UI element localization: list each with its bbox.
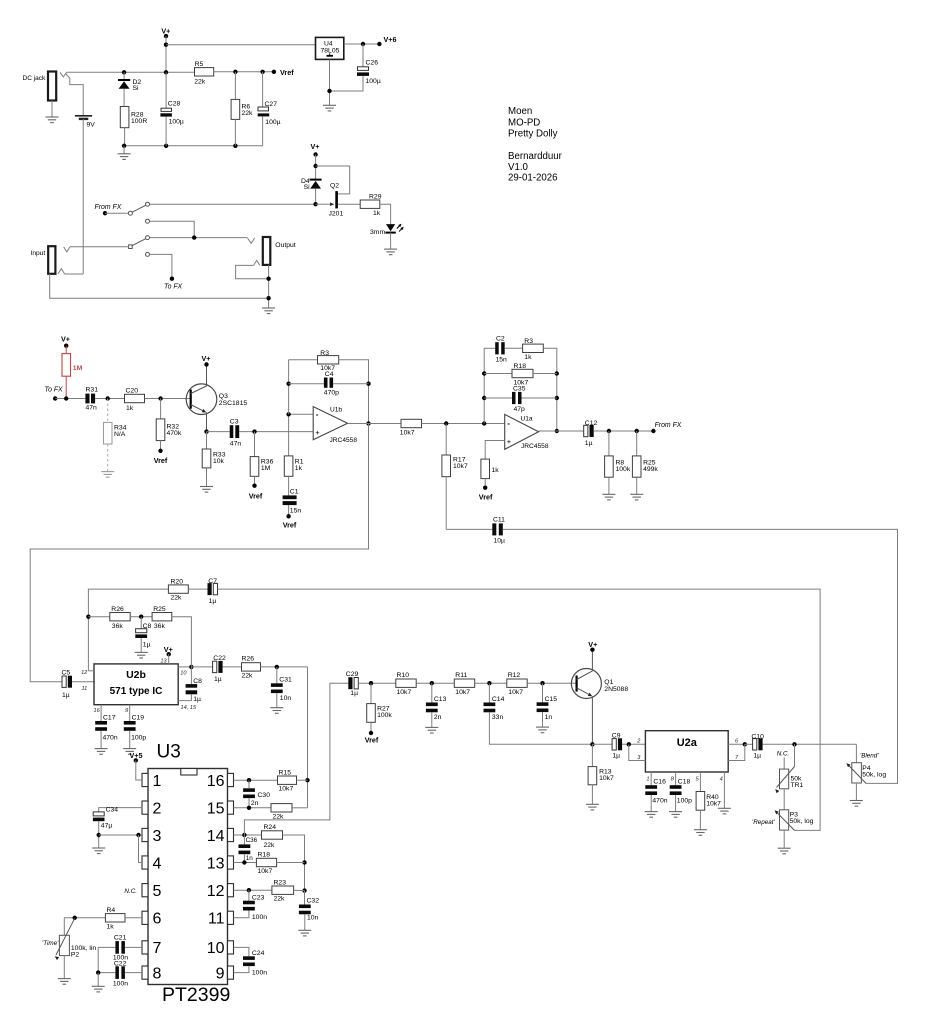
ground (C21 C22): [92, 986, 105, 992]
ground (U2a pin4): [718, 808, 731, 814]
capacitor C7 1u: [213, 583, 217, 594]
node Vref (R32): [158, 449, 162, 453]
svg-text:100n: 100n: [252, 970, 267, 977]
svg-text:470n: 470n: [103, 735, 118, 742]
ground (R40): [694, 830, 707, 836]
ground (C18): [669, 812, 682, 818]
capacitor C3 47n: [207, 431, 230, 433]
svg-text:C21: C21: [114, 935, 127, 942]
regulator U4 78L05: [316, 37, 344, 59]
capacitor C19 100p: [129, 705, 131, 721]
transistor Q3 2SC1815: [186, 384, 217, 415]
pin 4 (U2a): [723, 772, 725, 808]
svg-text:C18: C18: [678, 779, 691, 786]
capacitor C26 100u: [362, 44, 364, 67]
svg-text:'Blend': 'Blend': [860, 752, 879, 759]
wire pin15: [234, 807, 272, 809]
ground (R13): [586, 804, 599, 810]
potentiometer P3 50k log Repeat: [780, 810, 789, 830]
svg-text:JRC4558: JRC4558: [521, 443, 549, 450]
svg-text:R10: R10: [397, 672, 410, 679]
svg-text:2n: 2n: [251, 800, 259, 807]
svg-text:R18: R18: [514, 363, 527, 370]
wire U1a output: [539, 430, 584, 432]
node Vref (R36): [252, 484, 256, 488]
svg-text:C1: C1: [290, 489, 299, 496]
wire delay to C29: [244, 683, 348, 835]
resistor R40 10k7: [699, 772, 701, 792]
svg-text:10n: 10n: [307, 914, 319, 921]
svg-text:36k: 36k: [112, 623, 124, 630]
resistor R13 10k7: [590, 742, 594, 746]
svg-text:1n: 1n: [545, 714, 553, 721]
svg-text:C34: C34: [106, 806, 119, 813]
svg-text:10k: 10k: [213, 458, 225, 465]
svg-text:'Repeat': 'Repeat': [752, 819, 776, 826]
resistor R25 36k: [152, 613, 172, 621]
svg-text:15: 15: [207, 800, 225, 817]
ground (P2): [58, 979, 71, 985]
wire U1a feedback column: [483, 348, 485, 423]
wire V+ to U4: [166, 44, 316, 46]
svg-text:R12: R12: [508, 672, 521, 679]
svg-text:470p: 470p: [324, 390, 339, 397]
ground (C32): [298, 930, 311, 936]
svg-text:50k, log: 50k, log: [790, 818, 814, 825]
svg-text:C13: C13: [434, 696, 447, 703]
svg-text:1µ: 1µ: [209, 598, 217, 605]
svg-text:11: 11: [81, 686, 87, 692]
svg-text:C22: C22: [114, 960, 127, 967]
svg-text:C24: C24: [252, 950, 265, 957]
svg-text:100µ: 100µ: [169, 119, 184, 126]
svg-text:22k: 22k: [194, 78, 206, 85]
ground (C19): [123, 749, 136, 755]
node Vref (power): [272, 70, 276, 74]
svg-text:33n: 33n: [492, 714, 504, 721]
wire pins 3+4: [99, 834, 142, 836]
svg-text:78L05: 78L05: [321, 48, 340, 55]
resistor 1M pulldown (red): [65, 346, 67, 354]
svg-text:R26: R26: [242, 656, 255, 663]
wire top rail: [67, 71, 195, 73]
svg-text:10: 10: [207, 940, 225, 957]
svg-text:R24: R24: [264, 824, 277, 831]
svg-text:C12: C12: [585, 420, 598, 427]
capacitor C8 1u (pin10): [190, 667, 192, 684]
resistor R18 10k7 (U1a): [484, 373, 512, 375]
svg-text:Vref: Vref: [249, 492, 263, 501]
svg-text:'Time': 'Time': [42, 940, 59, 947]
resistor R3 1k (U1a): [523, 344, 544, 352]
svg-text:Input: Input: [31, 250, 46, 257]
svg-text:10k7: 10k7: [453, 463, 468, 470]
resistor R6 22k: [234, 72, 236, 100]
ground (C34): [92, 848, 105, 854]
svg-text:22k: 22k: [171, 595, 183, 602]
ground (P3): [778, 848, 791, 854]
svg-text:10k7: 10k7: [599, 775, 614, 782]
DC jack J1: [48, 72, 56, 101]
svg-text:100p: 100p: [677, 797, 692, 804]
svg-text:C28: C28: [168, 101, 181, 108]
ground (R25): [630, 494, 643, 500]
svg-text:R31: R31: [86, 387, 99, 394]
svg-text:1µ: 1µ: [350, 690, 358, 697]
svg-text:V+6: V+6: [384, 35, 397, 44]
svg-text:1µ: 1µ: [612, 753, 620, 760]
resistor 22k (pin15): [271, 804, 292, 812]
svg-text:C11: C11: [493, 517, 505, 524]
svg-text:-: -: [507, 419, 510, 428]
resistor R17 10k7: [445, 424, 447, 456]
capacitor C17 470n: [100, 705, 102, 721]
wire pin13: [234, 862, 257, 864]
transistor Q2 J201: [335, 191, 338, 208]
svg-text:MO-PD: MO-PD: [508, 117, 540, 128]
capacitor C8 1u (filter): [140, 617, 142, 629]
svg-text:C19: C19: [132, 715, 145, 722]
svg-text:571 type IC: 571 type IC: [110, 686, 163, 697]
svg-text:C10: C10: [751, 733, 764, 740]
svg-text:R5: R5: [195, 61, 204, 68]
capacitor C28 100u: [165, 72, 167, 108]
capacitor C13 2n: [431, 683, 433, 702]
capacitor C12 1u: [584, 425, 588, 436]
svg-text:R15: R15: [279, 769, 292, 776]
svg-text:16: 16: [207, 773, 225, 790]
svg-text:N.C.: N.C.: [124, 888, 137, 895]
svg-text:R11: R11: [455, 672, 467, 679]
svg-text:C20: C20: [126, 388, 139, 395]
svg-text:U4: U4: [324, 41, 333, 48]
svg-text:Si: Si: [304, 184, 311, 191]
resistor R25 499k: [636, 431, 638, 456]
capacitor C5 1u: [62, 676, 66, 687]
capacitor C36 1n: [243, 835, 245, 844]
svg-text:C5: C5: [62, 669, 71, 676]
svg-text:C22: C22: [213, 655, 226, 662]
input jack: [48, 246, 55, 274]
resistor R3 10k7: [289, 359, 318, 361]
ground (LED): [384, 249, 397, 255]
capacitor C4 470p: [289, 383, 324, 385]
U3 pin boxes: [142, 773, 148, 786]
svg-text:R29: R29: [369, 194, 382, 201]
svg-text:10k7: 10k7: [258, 868, 273, 875]
svg-text:16: 16: [93, 708, 100, 714]
node Vref (C1): [286, 514, 290, 518]
svg-text:47n: 47n: [86, 405, 98, 412]
svg-text:2: 2: [153, 800, 162, 817]
ground (C17): [95, 749, 108, 755]
svg-text:DC jack: DC jack: [23, 75, 47, 82]
svg-text:10k7: 10k7: [455, 689, 470, 696]
svg-text:12: 12: [81, 670, 88, 676]
capacitor C31 10n: [276, 667, 278, 683]
wire U1b feedback column: [288, 360, 290, 415]
svg-text:47p: 47p: [514, 406, 526, 413]
trimmer TR1 50k: [794, 744, 796, 766]
svg-text:Si: Si: [133, 85, 140, 92]
svg-text:Q1: Q1: [604, 679, 613, 686]
ground (R8): [602, 494, 615, 500]
svg-text:C36: C36: [246, 837, 258, 844]
svg-text:2SC1815: 2SC1815: [219, 400, 248, 407]
capacitor C27 100u: [262, 72, 264, 107]
capacitor C2 15n: [484, 347, 495, 349]
svg-text:10k7: 10k7: [397, 689, 412, 696]
svg-text:1: 1: [646, 777, 649, 783]
svg-text:R18: R18: [258, 852, 271, 859]
wire U4 output: [344, 43, 380, 45]
svg-text:1k: 1k: [492, 467, 500, 474]
capacitor C29 1u: [354, 678, 358, 689]
resistor R10 10k7: [396, 679, 416, 687]
svg-text:C2: C2: [496, 336, 505, 343]
battery 9V: [75, 115, 92, 117]
svg-text:U2b: U2b: [126, 669, 146, 681]
svg-text:10µ: 10µ: [494, 538, 506, 545]
wire Q2 drain: [316, 166, 350, 194]
svg-text:14: 14: [207, 828, 225, 845]
svg-text:N/A: N/A: [114, 431, 126, 438]
wire switch to D4: [150, 203, 316, 205]
resistor R34 N/A (dashed): [107, 399, 109, 423]
svg-text:C16: C16: [653, 779, 666, 786]
ground (C31): [270, 708, 283, 714]
svg-text:10: 10: [180, 670, 187, 676]
svg-text:Vref: Vref: [365, 736, 379, 745]
svg-text:22k: 22k: [242, 672, 254, 679]
svg-text:C17: C17: [103, 715, 116, 722]
svg-text:15n: 15n: [290, 507, 302, 514]
svg-text:22k: 22k: [274, 896, 286, 903]
capacitor C22 1u: [191, 666, 212, 668]
wire output row: [150, 237, 248, 239]
svg-text:1M: 1M: [73, 365, 83, 372]
svg-text:Vref: Vref: [479, 493, 493, 502]
ground (C13): [425, 727, 438, 733]
svg-text:6: 6: [153, 911, 162, 928]
svg-text:Q2: Q2: [330, 183, 339, 190]
svg-text:+: +: [315, 428, 320, 437]
svg-text:1M: 1M: [261, 465, 271, 472]
svg-text:U1a: U1a: [521, 416, 533, 423]
svg-text:Pretty Dolly: Pretty Dolly: [508, 128, 558, 139]
svg-text:R26: R26: [111, 606, 124, 613]
svg-text:9: 9: [216, 965, 225, 982]
svg-text:4: 4: [720, 777, 723, 783]
svg-text:3mm: 3mm: [370, 229, 385, 236]
svg-text:10k7: 10k7: [508, 689, 523, 696]
wire C11 to Blend: [503, 529, 898, 783]
resistor R36 1M: [254, 432, 256, 457]
svg-text:2n: 2n: [434, 714, 442, 721]
svg-text:Vref: Vref: [154, 456, 168, 465]
wire U1b output: [348, 423, 401, 425]
capacitor C23 100n: [248, 890, 250, 901]
wire U1b inv input: [289, 413, 314, 415]
svg-text:1k: 1k: [126, 405, 134, 412]
wire bottom power rail: [124, 145, 263, 147]
svg-text:470n: 470n: [652, 797, 667, 804]
wire U2b pin12 column: [88, 589, 168, 671]
resistor R5 22k: [195, 68, 214, 76]
svg-text:C29: C29: [346, 671, 359, 678]
svg-text:1k: 1k: [373, 210, 381, 217]
capacitor C21 100n: [125, 946, 142, 948]
svg-text:9: 9: [125, 708, 128, 714]
wire pin14 delay out: [234, 834, 262, 836]
ground (output jack): [268, 265, 270, 308]
svg-text:29-01-2026: 29-01-2026: [508, 173, 558, 184]
svg-text:Output: Output: [275, 242, 296, 249]
svg-text:To FX: To FX: [45, 386, 64, 393]
svg-text:50k, log: 50k, log: [862, 772, 886, 779]
svg-text:5: 5: [153, 883, 162, 900]
resistor R18 10k7 (delay): [256, 858, 276, 866]
svg-text:U1b: U1b: [330, 406, 342, 413]
capacitor C1 15n: [283, 495, 297, 499]
svg-text:N.C.: N.C.: [777, 751, 790, 758]
capacitor C35 47p: [484, 397, 512, 399]
svg-text:From FX: From FX: [95, 204, 122, 211]
svg-text:47n: 47n: [230, 440, 242, 447]
svg-text:C4: C4: [325, 371, 334, 378]
resistor R32 470k: [160, 399, 162, 419]
svg-text:36k: 36k: [154, 623, 166, 630]
svg-text:7: 7: [153, 940, 162, 957]
svg-text:12: 12: [207, 883, 225, 900]
svg-text:1µ: 1µ: [214, 676, 222, 683]
svg-text:10n: 10n: [280, 695, 292, 702]
svg-text:100µ: 100µ: [265, 119, 280, 126]
output jack: [263, 237, 271, 265]
wire Time pot row: [64, 917, 105, 919]
svg-text:R20: R20: [171, 578, 184, 585]
ground (C8): [135, 652, 148, 658]
svg-text:Vref: Vref: [280, 68, 294, 77]
svg-text:Bernardduur: Bernardduur: [508, 151, 563, 162]
resistor R1 1k: [288, 414, 290, 456]
svg-text:47µ: 47µ: [101, 823, 113, 830]
svg-text:8: 8: [153, 965, 162, 982]
potentiometer P2 100k lin Time: [63, 918, 65, 936]
svg-text:PT2399: PT2399: [162, 984, 230, 1006]
node V+6: [377, 42, 381, 46]
transistor Q1 2N5088: [571, 669, 601, 699]
op-amp U1b JRC4558: [313, 407, 347, 440]
resistor R15 10k7: [278, 776, 297, 784]
ground (R33): [200, 487, 213, 493]
svg-text:-: -: [316, 410, 319, 419]
resistor R26 36k: [88, 616, 109, 618]
resistor R20 22k: [168, 585, 188, 593]
resistor R24 22k: [262, 831, 283, 839]
pin 10 (U2b): [178, 666, 191, 668]
ground (C15): [536, 727, 549, 733]
svg-text:V+: V+: [202, 354, 211, 363]
IC U2b 571 type: [94, 664, 178, 705]
svg-text:100p: 100p: [131, 735, 146, 742]
pin 6 (U2a): [728, 743, 745, 745]
svg-text:100R: 100R: [131, 118, 147, 125]
switch SW1a: [128, 211, 132, 215]
svg-text:C8: C8: [143, 623, 152, 630]
svg-text:4: 4: [153, 855, 162, 872]
svg-text:C35: C35: [513, 385, 526, 392]
svg-text:9V: 9V: [87, 122, 96, 129]
svg-text:15n: 15n: [496, 357, 508, 364]
svg-text:R25: R25: [153, 606, 166, 613]
switch throw 2: [146, 219, 150, 223]
svg-text:10k7: 10k7: [279, 786, 294, 793]
svg-text:R3: R3: [320, 350, 329, 357]
resistor R28 100R: [120, 107, 129, 128]
IC U2a: [645, 731, 728, 772]
svg-text:100µ: 100µ: [366, 78, 381, 85]
svg-text:C32: C32: [307, 898, 320, 905]
ground (P4): [850, 801, 863, 807]
ground (U4): [329, 59, 331, 105]
svg-text:1n: 1n: [246, 855, 254, 862]
svg-text:C30: C30: [258, 792, 271, 799]
svg-text:+: +: [507, 437, 512, 446]
svg-text:1µ: 1µ: [753, 753, 761, 760]
resistor 10k7 (interstage): [401, 419, 422, 427]
wire input jack sleeve to rail: [50, 274, 269, 298]
capacitor C22 100n (pin8): [125, 972, 142, 974]
ground (R34): [101, 472, 114, 478]
capacitor C18 100p (U2a pin8): [675, 772, 677, 785]
resistor R12 10k7: [507, 679, 527, 687]
svg-text:C14: C14: [492, 696, 505, 703]
capacitor C34 47u (pin2): [99, 808, 142, 812]
wire C7 feedback to Repeat: [218, 589, 821, 830]
resistor R33 10k: [204, 429, 208, 433]
capacitor R31 47n: [85, 394, 89, 404]
svg-text:1: 1: [153, 773, 162, 790]
svg-text:JRC4558: JRC4558: [330, 437, 358, 444]
resistor R29 1k: [360, 200, 380, 208]
svg-text:10k7: 10k7: [706, 800, 721, 807]
svg-text:C3: C3: [230, 418, 239, 425]
resistor R26 22k (send): [242, 663, 261, 671]
svg-text:R23: R23: [274, 879, 287, 886]
capacitor C14 33n: [488, 683, 490, 702]
svg-text:100n: 100n: [252, 914, 267, 921]
resistor 1k (U1a bias): [481, 459, 490, 479]
svg-text:1µ: 1µ: [193, 696, 201, 703]
svg-text:2N5088: 2N5088: [604, 686, 628, 693]
svg-text:C9: C9: [612, 732, 621, 739]
ground (DC jack): [51, 101, 53, 118]
capacitor C10 1u: [745, 743, 753, 745]
diode D4 Si: [310, 179, 322, 181]
svg-text:C7: C7: [208, 578, 217, 585]
capacitor C15 1n: [542, 683, 544, 702]
svg-text:1k: 1k: [295, 465, 303, 472]
svg-text:C8: C8: [193, 678, 202, 685]
svg-text:To FX: To FX: [164, 283, 183, 290]
capacitor C24 100n: [234, 947, 249, 956]
capacitor C9 1u: [592, 743, 612, 745]
svg-text:TR1: TR1: [791, 782, 804, 789]
svg-text:3: 3: [153, 828, 162, 845]
ground (C16): [645, 812, 658, 818]
svg-text:P2: P2: [71, 952, 80, 959]
